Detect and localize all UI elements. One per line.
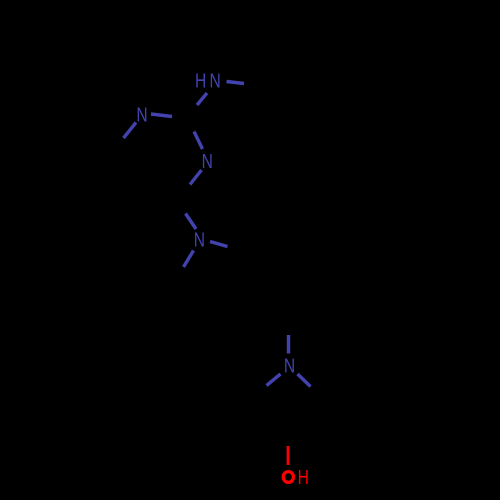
bond Npy to Cb down-left (blue half) (184, 251, 194, 268)
bond Naz to azetidine C right (blue half) (298, 374, 311, 387)
svg-text:H: H (298, 466, 309, 488)
svg-text:N: N (209, 70, 220, 92)
bond Npy to C4 (blue half) (186, 214, 197, 230)
bond Naz to azetidine C left (blue half) (267, 374, 281, 386)
bond HN to phenyl C1' (blue half) (227, 82, 245, 84)
bond N3 to C4 (blue half) (190, 170, 202, 185)
bond Naz to chain C up (blue half) (287, 335, 290, 354)
svg-text:N: N (136, 103, 147, 125)
bond Npy to Ca right (blue half) (210, 242, 228, 247)
bond O to azetidine C3 (red half) (287, 446, 290, 465)
svg-text:N: N (202, 150, 213, 172)
svg-text:N: N (284, 355, 295, 377)
bond N1 to C2 (blue half) (151, 114, 172, 117)
bond N3 to C2 (blue half) (194, 132, 203, 150)
bond N1 to C6 (blue half) (124, 123, 137, 139)
bond HN to C2 (blue half) (197, 93, 207, 105)
svg-text:H: H (195, 70, 206, 92)
svg-text:N: N (194, 229, 205, 251)
label O of OH (azetidinol, drawn as thick ring) (283, 472, 293, 483)
